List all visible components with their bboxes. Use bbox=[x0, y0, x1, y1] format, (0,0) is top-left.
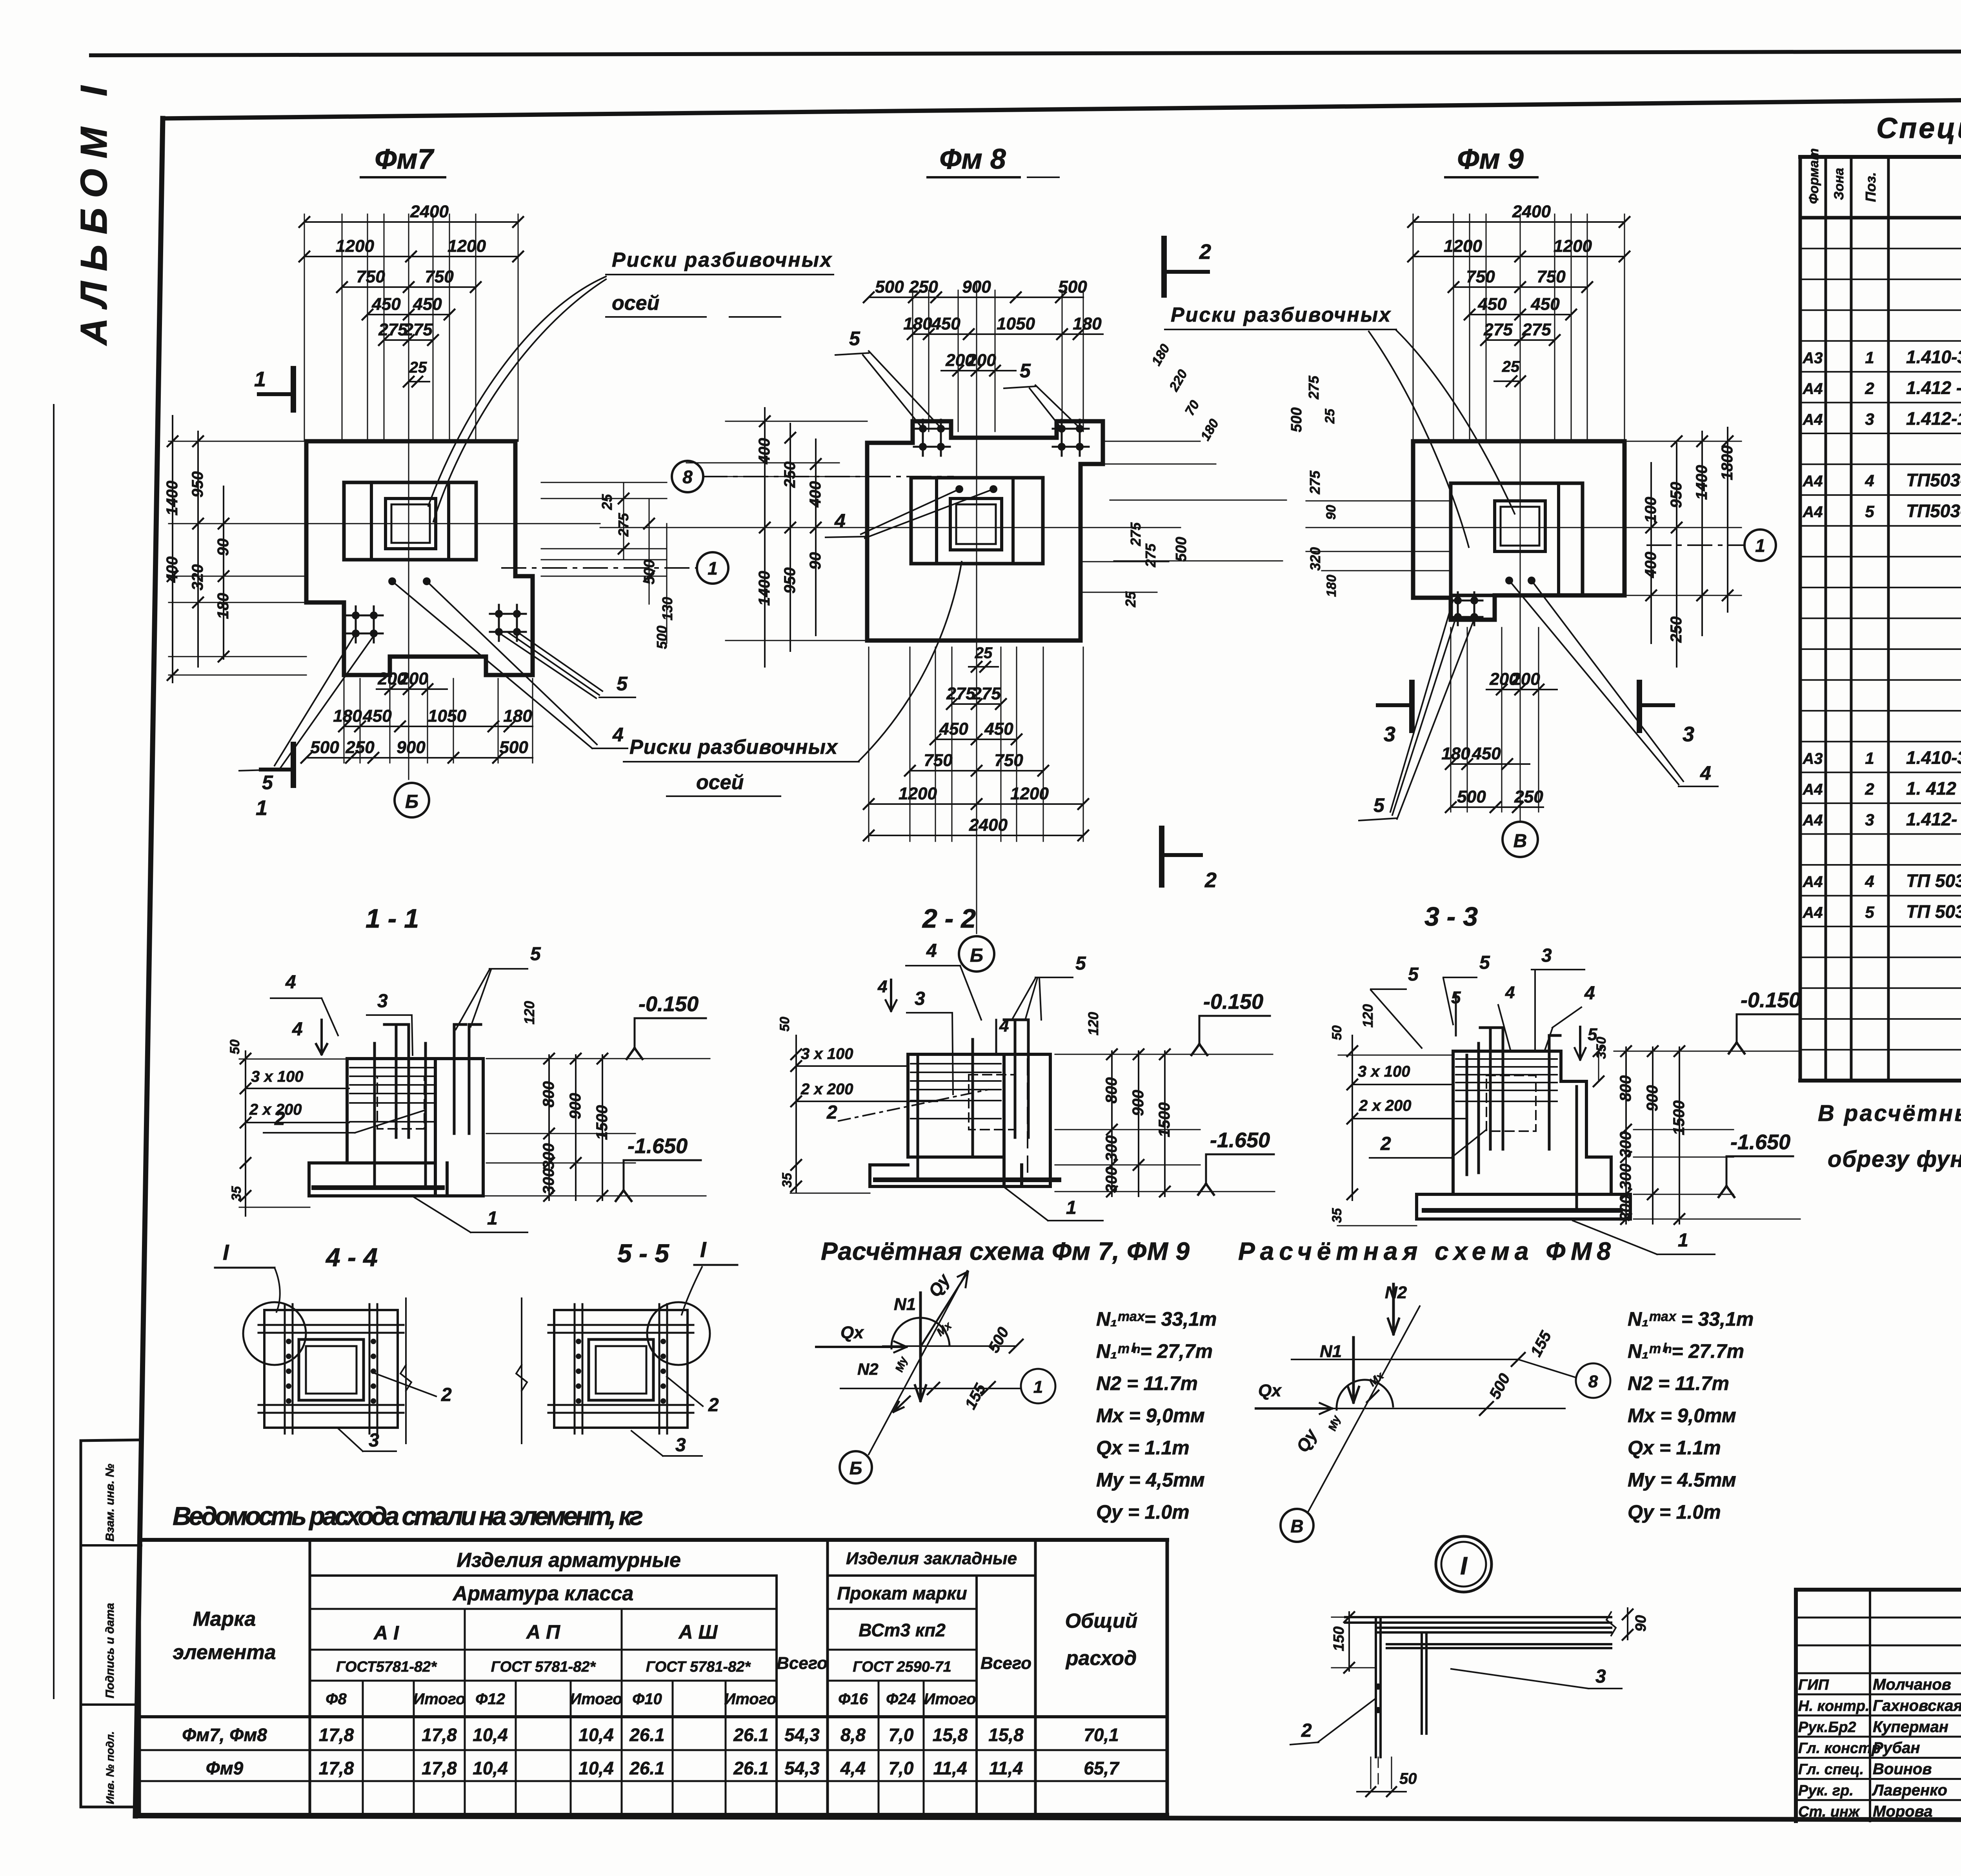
svg-text:2: 2 bbox=[1865, 780, 1874, 798]
steel table inner column splits for A classes bbox=[464, 1609, 466, 1681]
scheme 1 Qy arrow bbox=[920, 1273, 967, 1347]
svg-text:Итого: Итого bbox=[924, 1690, 976, 1708]
svg-text:450: 450 bbox=[1530, 295, 1560, 314]
detail 4-4 right break line bbox=[405, 1298, 407, 1443]
svg-text:I: I bbox=[223, 1240, 229, 1265]
svg-text:1500: 1500 bbox=[1156, 1103, 1173, 1137]
svg-text:250: 250 bbox=[781, 462, 799, 488]
svg-text:N2: N2 bbox=[1385, 1283, 1407, 1302]
svg-text:Mу: Mу bbox=[1326, 1414, 1343, 1432]
steel table horizontal lines bbox=[310, 1574, 777, 1577]
svg-text:1: 1 bbox=[1865, 348, 1874, 367]
svg-text:450: 450 bbox=[1472, 744, 1501, 763]
section 2-2 hooked dowels bbox=[1014, 1020, 1017, 1137]
svg-text:1: 1 bbox=[1678, 1230, 1688, 1251]
svg-text:4: 4 bbox=[1865, 471, 1874, 490]
svg-text:750: 750 bbox=[994, 751, 1023, 770]
plan FM9 leader to mark 5 bbox=[1392, 618, 1456, 815]
svg-text:275: 275 bbox=[1483, 320, 1513, 339]
svg-text:А Ш: А Ш bbox=[678, 1621, 718, 1643]
svg-text:А4: А4 bbox=[1802, 781, 1823, 798]
svg-text:осей: осей bbox=[696, 771, 744, 794]
plan FM7 left vertical dims bbox=[172, 416, 173, 682]
svg-text:N1: N1 bbox=[1320, 1342, 1342, 1361]
svg-text:500: 500 bbox=[499, 738, 528, 757]
svg-text:Фм7: Фм7 bbox=[375, 144, 434, 175]
svg-text:1400: 1400 bbox=[1693, 465, 1710, 500]
svg-text:2: 2 bbox=[1199, 240, 1211, 264]
svg-text:180: 180 bbox=[1073, 314, 1102, 333]
section 1-1 stem outline bbox=[347, 1059, 435, 1163]
svg-text:3 х 100: 3 х 100 bbox=[1358, 1063, 1410, 1080]
svg-text:Qх = 1.1т: Qх = 1.1т bbox=[1096, 1437, 1190, 1459]
svg-text:1: 1 bbox=[708, 558, 718, 579]
plan FM9 section mark 3 left bbox=[1378, 703, 1412, 707]
svg-text:17,8: 17,8 bbox=[319, 1725, 354, 1745]
section 2-2 mark 1 leader bbox=[1005, 1188, 1048, 1221]
plan FM9 section mark 3 right bbox=[1639, 703, 1673, 707]
detail 5-5 corner circle bbox=[647, 1302, 710, 1365]
svg-text:1: 1 bbox=[1865, 749, 1874, 767]
svg-text:3: 3 bbox=[1541, 945, 1552, 966]
scheme 2 N2 arrow bbox=[1392, 1284, 1395, 1334]
plan FM8 left tab bolt group bbox=[922, 420, 924, 456]
section 1-1 hooked dowels bbox=[395, 1024, 398, 1137]
svg-text:N₁ᵐᵃˣ= 33,1т: N₁ᵐᵃˣ= 33,1т bbox=[1096, 1308, 1217, 1330]
grid circle 8 left of FM8 bbox=[672, 461, 703, 492]
section 1-1 right dims bbox=[486, 1058, 635, 1059]
svg-text:2: 2 bbox=[441, 1385, 452, 1405]
inter-plan thin lines FM8-FM9 bbox=[1110, 500, 1286, 501]
plan FM9 vertical axis bbox=[1520, 220, 1521, 822]
plan FM8 right tab bolt group bbox=[1061, 420, 1063, 456]
svg-text:1200: 1200 bbox=[1444, 237, 1482, 256]
plan FM7 pocket inner walls bbox=[370, 482, 373, 560]
svg-text:5: 5 bbox=[1408, 964, 1419, 985]
svg-text:Ф24: Ф24 bbox=[886, 1690, 916, 1708]
svg-text:1: 1 bbox=[1066, 1197, 1077, 1218]
detail I anchor dots bbox=[1375, 1683, 1381, 1690]
svg-text:Mх = 9,0тм: Mх = 9,0тм bbox=[1096, 1405, 1205, 1427]
svg-text:-1.650: -1.650 bbox=[1210, 1128, 1270, 1152]
svg-text:8,8: 8,8 bbox=[840, 1725, 866, 1745]
svg-text:3: 3 bbox=[1384, 722, 1395, 746]
svg-text:N2 = 11.7т: N2 = 11.7т bbox=[1096, 1372, 1198, 1394]
svg-text:35: 35 bbox=[780, 1172, 795, 1188]
plan FM8 column section inner bbox=[956, 504, 996, 544]
svg-text:450: 450 bbox=[931, 314, 960, 333]
svg-text:3 - 3: 3 - 3 bbox=[1424, 902, 1478, 932]
plan FM7 section mark 1 top bbox=[259, 392, 293, 396]
svg-text:А П: А П bbox=[526, 1621, 560, 1643]
section 3-3 mark 1 leader bbox=[1573, 1221, 1657, 1254]
svg-text:Гл. констр: Гл. констр bbox=[1798, 1740, 1881, 1757]
svg-text:Изделия закладные: Изделия закладные bbox=[846, 1549, 1017, 1568]
svg-text:900: 900 bbox=[1130, 1090, 1147, 1116]
svg-text:26.1: 26.1 bbox=[629, 1758, 665, 1778]
svg-text:1200: 1200 bbox=[448, 237, 486, 256]
svg-text:Всего: Всего bbox=[777, 1654, 828, 1673]
plan FM7 column section inner bbox=[391, 504, 430, 543]
svg-text:Молчанов: Молчанов bbox=[1873, 1676, 1951, 1693]
svg-text:750: 750 bbox=[1466, 267, 1495, 286]
scheme 2 grid circle 8 bbox=[1576, 1363, 1610, 1398]
svg-text:65,7: 65,7 bbox=[1084, 1758, 1120, 1778]
svg-text:Воинов: Воинов bbox=[1873, 1761, 1932, 1778]
scheme 1 axis line lower bbox=[840, 1388, 1021, 1389]
svg-text:Риски разбивочных: Риски разбивочных bbox=[629, 736, 838, 759]
grid circle B below FM8 bbox=[959, 936, 994, 972]
svg-text:Подпись и дата: Подпись и дата bbox=[104, 1603, 116, 1698]
section 1-1 right block outline bbox=[435, 1059, 483, 1196]
svg-text:500: 500 bbox=[310, 738, 339, 757]
svg-text:Н. контр.: Н. контр. bbox=[1798, 1698, 1870, 1714]
svg-text:90: 90 bbox=[215, 539, 232, 556]
svg-text:1400: 1400 bbox=[756, 571, 773, 606]
svg-text:180: 180 bbox=[215, 593, 232, 619]
svg-text:180: 180 bbox=[503, 706, 532, 726]
svg-text:120: 120 bbox=[1085, 1012, 1101, 1035]
scheme 2 line to circle 8 bbox=[1518, 1359, 1576, 1377]
svg-text:750: 750 bbox=[1537, 267, 1566, 286]
plan FM7 bottom dims 200 200 bbox=[377, 688, 447, 690]
svg-text:1: 1 bbox=[1755, 535, 1765, 556]
scheme 2 axis line upper bbox=[1292, 1359, 1518, 1360]
svg-text:N1: N1 bbox=[894, 1295, 916, 1314]
svg-text:Гл. спец.: Гл. спец. bbox=[1798, 1761, 1864, 1778]
svg-text:1050: 1050 bbox=[997, 314, 1035, 333]
svg-text:ВСт3 кп2: ВСт3 кп2 bbox=[859, 1620, 946, 1640]
svg-text:1.410-3, Вып.1: 1.410-3, Вып.1 bbox=[1906, 347, 1961, 367]
svg-text:50: 50 bbox=[227, 1039, 242, 1054]
detail 4-4 mark 2 leader bbox=[373, 1373, 436, 1396]
frame bottom border bbox=[135, 1816, 1961, 1821]
detail I circle bbox=[1436, 1536, 1492, 1592]
svg-text:N₁ᵐᵃˣ = 33,1т: N₁ᵐᵃˣ = 33,1т bbox=[1628, 1308, 1754, 1330]
plan FM7 anchor dots near column bbox=[388, 577, 396, 585]
svg-text:Лавренко: Лавренко bbox=[1872, 1782, 1947, 1799]
svg-text:А4: А4 bbox=[1802, 380, 1823, 397]
scheme 1 grid circle 1 bbox=[1021, 1369, 1055, 1403]
steel table outer frame bbox=[139, 1538, 1167, 1542]
svg-text:Б: Б bbox=[850, 1458, 862, 1478]
section 1-1 vertical rebars bbox=[373, 1043, 376, 1185]
svg-text:Арматура класса: Арматура класса bbox=[452, 1582, 634, 1605]
plan FM7 pocket inner rectangle bbox=[344, 482, 476, 560]
svg-text:2: 2 bbox=[826, 1102, 837, 1123]
scheme 2 N1 arrow bbox=[1352, 1337, 1355, 1402]
svg-text:300: 300 bbox=[1617, 1195, 1634, 1221]
svg-text:Формат: Формат bbox=[1806, 148, 1821, 204]
svg-text:50: 50 bbox=[1399, 1770, 1417, 1787]
svg-text:Ф16: Ф16 bbox=[838, 1690, 868, 1708]
section 3-3 stem mesh lines bbox=[1456, 1058, 1557, 1060]
svg-text:Qx: Qx bbox=[1258, 1381, 1282, 1400]
svg-text:Гахновская: Гахновская bbox=[1873, 1697, 1961, 1714]
svg-text:5: 5 bbox=[530, 944, 541, 964]
specification table row lines bbox=[1800, 248, 1961, 249]
svg-text:3: 3 bbox=[1865, 410, 1874, 428]
svg-text:3 х 100: 3 х 100 bbox=[251, 1068, 303, 1085]
svg-text:5: 5 bbox=[1373, 794, 1385, 816]
plan FM8 section mark 2 top bbox=[1161, 238, 1167, 295]
svg-text:ГОСТ5781-82*: ГОСТ5781-82* bbox=[336, 1659, 437, 1675]
svg-text:-1.650: -1.650 bbox=[1730, 1130, 1790, 1154]
svg-text:1200: 1200 bbox=[899, 784, 937, 803]
section 2-2 footing bottom bar bbox=[875, 1177, 1059, 1182]
steel table verticals bbox=[309, 1540, 311, 1815]
svg-text:17,8: 17,8 bbox=[319, 1758, 354, 1778]
svg-text:2400: 2400 bbox=[969, 815, 1008, 835]
plan FM9 axis to grid circle 1 bbox=[1647, 544, 1745, 546]
svg-text:500: 500 bbox=[654, 626, 670, 649]
svg-text:8: 8 bbox=[1588, 1372, 1598, 1391]
svg-text:10,4: 10,4 bbox=[578, 1725, 614, 1745]
svg-text:120: 120 bbox=[1360, 1004, 1376, 1028]
svg-text:N₁ᵐⁱⁿ= 27.7т: N₁ᵐⁱⁿ= 27.7т bbox=[1628, 1340, 1744, 1362]
svg-text:Qх = 1.1т: Qх = 1.1т bbox=[1628, 1437, 1721, 1459]
specification table header row line bbox=[1800, 216, 1961, 220]
plan FM7 bottom dims 180 450 1050 180 bbox=[344, 726, 533, 727]
svg-text:7,0: 7,0 bbox=[889, 1725, 914, 1745]
plan FM8 anchor dots bbox=[955, 485, 963, 493]
svg-text:В: В bbox=[1290, 1516, 1303, 1536]
plan FM8 pocket inner rectangle bbox=[911, 478, 1043, 564]
svg-text:200: 200 bbox=[1511, 670, 1540, 689]
svg-text:4 - 4: 4 - 4 bbox=[325, 1243, 378, 1272]
svg-text:Изделия арматурные: Изделия арматурные bbox=[457, 1549, 681, 1572]
plan FM9 dimensions 275 275 bbox=[1486, 339, 1555, 341]
svg-text:10,4: 10,4 bbox=[578, 1758, 614, 1778]
plan FM9 bottom dims 180 450 bbox=[1451, 763, 1530, 765]
svg-text:275: 275 bbox=[1128, 522, 1144, 546]
svg-text:180: 180 bbox=[1324, 575, 1339, 597]
svg-text:Ф8: Ф8 bbox=[326, 1690, 347, 1708]
plan FM9 bottom dims 200 200 bbox=[1486, 689, 1557, 690]
plan FM8 bottom dims 275 275 bbox=[952, 703, 1001, 705]
svg-text:2 х 200: 2 х 200 bbox=[800, 1081, 853, 1098]
svg-text:500: 500 bbox=[1173, 537, 1190, 562]
plan FM7 leader to mark 4 bbox=[392, 581, 592, 748]
svg-text:5: 5 bbox=[1479, 952, 1490, 973]
plan FM9 column section inner bbox=[1501, 507, 1539, 546]
plan FM8 leader to mark 5 left bbox=[863, 355, 922, 428]
svg-text:120: 120 bbox=[521, 1001, 537, 1024]
plan FM8 leader to mark 5 right bbox=[1030, 388, 1061, 428]
svg-text:Марка: Марка bbox=[193, 1608, 256, 1630]
svg-text:Ф10: Ф10 bbox=[632, 1690, 662, 1708]
frame top border bbox=[163, 93, 1961, 118]
svg-text:400: 400 bbox=[1642, 552, 1659, 579]
detail 5-5 left break line bbox=[521, 1298, 522, 1443]
grid circle 1 right of FM9 bbox=[1745, 530, 1776, 561]
svg-text:950: 950 bbox=[189, 471, 206, 498]
svg-text:Рук. гр.: Рук. гр. bbox=[1798, 1783, 1854, 1799]
svg-text:2: 2 bbox=[274, 1108, 285, 1129]
svg-text:Mу: Mу bbox=[893, 1355, 910, 1374]
svg-text:ТП 503-3-20.87 альбом IV: ТП 503-3-20.87 альбом IV bbox=[1906, 871, 1961, 891]
svg-text:А4: А4 bbox=[1802, 411, 1823, 428]
plan FM9 outline bbox=[1413, 441, 1624, 620]
scheme 2 main diagonal bbox=[1308, 1306, 1420, 1512]
svg-text:2: 2 bbox=[1380, 1134, 1391, 1154]
svg-text:300: 300 bbox=[540, 1143, 557, 1170]
sheet top border line bbox=[91, 50, 1961, 55]
document side stamp boxes bbox=[80, 1441, 82, 1807]
scheme 2 Qx arrow bbox=[1256, 1407, 1332, 1410]
detail I dim 150 bbox=[1348, 1612, 1350, 1671]
svg-text:750: 750 bbox=[924, 751, 953, 770]
svg-text:Mх = 9,0тм: Mх = 9,0тм bbox=[1628, 1405, 1736, 1427]
svg-text:200: 200 bbox=[399, 669, 428, 688]
detail 5-5 view bbox=[554, 1310, 688, 1428]
plan FM9 dimensions 450 450 bbox=[1470, 314, 1571, 315]
plan FM9 horizontal axis bbox=[1314, 527, 1686, 528]
svg-text:-1.650: -1.650 bbox=[628, 1134, 688, 1158]
svg-text:1: 1 bbox=[256, 796, 267, 820]
svg-text:5: 5 bbox=[262, 772, 273, 793]
svg-text:4: 4 bbox=[292, 1019, 303, 1040]
svg-text:275: 275 bbox=[1306, 375, 1322, 400]
svg-text:1.412 -1/77, Вып.3: 1.412 -1/77, Вып.3 bbox=[1906, 377, 1961, 398]
svg-text:275: 275 bbox=[1142, 543, 1159, 568]
svg-text:ГОСТ 5781-82*: ГОСТ 5781-82* bbox=[646, 1659, 751, 1675]
section 1-1 footing outline bbox=[309, 1163, 447, 1196]
plan FM7 dimensions 275 275 bbox=[384, 339, 433, 341]
svg-text:4,4: 4,4 bbox=[840, 1758, 866, 1778]
svg-text:А4: А4 bbox=[1802, 904, 1823, 921]
svg-text:4: 4 bbox=[1865, 872, 1874, 891]
plan FM9 leader to mark 4 bbox=[1509, 580, 1679, 784]
plan FM7 bottom dims 500 250 900 500 bbox=[306, 757, 533, 759]
svg-text:220: 220 bbox=[1166, 367, 1191, 394]
detail I mark 2 leader bbox=[1318, 1698, 1376, 1742]
svg-text:Риски разбивочных: Риски разбивочных bbox=[1171, 304, 1391, 326]
svg-text:А I: А I bbox=[373, 1622, 399, 1644]
plan FM7 extension lines above bbox=[304, 214, 305, 441]
svg-text:Риски разбивочных: Риски разбивочных bbox=[612, 249, 832, 271]
svg-text:расход: расход bbox=[1065, 1647, 1137, 1670]
svg-text:17,8: 17,8 bbox=[422, 1758, 457, 1778]
section 2-2 stem mesh lines bbox=[911, 1063, 1001, 1064]
svg-text:950: 950 bbox=[781, 568, 799, 594]
svg-text:50: 50 bbox=[1330, 1025, 1344, 1040]
svg-text:I: I bbox=[700, 1237, 707, 1262]
svg-text:450: 450 bbox=[413, 295, 442, 314]
svg-text:Спецификация ФМ 7 ÷ ФМ9: Спецификация ФМ 7 ÷ ФМ9 bbox=[1876, 112, 1961, 144]
svg-text:500: 500 bbox=[985, 1325, 1012, 1356]
svg-text:500: 500 bbox=[1486, 1371, 1513, 1402]
svg-text:450: 450 bbox=[984, 719, 1013, 739]
grid circle V below FM9 bbox=[1503, 822, 1538, 857]
plan FM7 bottom extension lines bbox=[344, 679, 345, 763]
svg-text:500: 500 bbox=[875, 277, 904, 297]
plan FM7 left extension lines bbox=[169, 441, 306, 442]
svg-text:200: 200 bbox=[967, 351, 996, 370]
svg-text:3: 3 bbox=[1683, 722, 1694, 746]
plan FM7 leader to mark 5 left bbox=[275, 635, 355, 766]
plan FM8 outline bbox=[867, 421, 1103, 640]
plan FM8 column section outer bbox=[950, 499, 1002, 550]
svg-text:Зона: Зона bbox=[1832, 168, 1846, 200]
plan FM9 pocket inner rectangle bbox=[1451, 483, 1583, 595]
svg-text:Рук.Бр2: Рук.Бр2 bbox=[1798, 1719, 1856, 1736]
svg-text:4: 4 bbox=[285, 972, 296, 993]
svg-text:8: 8 bbox=[682, 467, 693, 487]
svg-text:250: 250 bbox=[1668, 617, 1685, 643]
plan FM9 bottom extension lines bbox=[1450, 628, 1452, 812]
svg-text:275: 275 bbox=[971, 684, 1001, 703]
svg-text:2 - 2: 2 - 2 bbox=[922, 904, 976, 933]
plan FM7 right tab bolt group bbox=[498, 605, 500, 641]
svg-text:750: 750 bbox=[356, 267, 385, 286]
svg-text:900: 900 bbox=[1644, 1085, 1661, 1112]
plan FM8 pocket inner walls bbox=[935, 478, 938, 564]
plan FM9 right vertical dims bbox=[1624, 441, 1741, 442]
svg-text:450: 450 bbox=[939, 719, 968, 739]
svg-text:800: 800 bbox=[1617, 1075, 1634, 1102]
section 2-2 footing outline bbox=[870, 1165, 1022, 1186]
svg-text:180: 180 bbox=[1149, 342, 1173, 368]
scheme 2 grid circle V bbox=[1281, 1509, 1313, 1542]
detail I vertical bars bbox=[1375, 1617, 1377, 1757]
svg-text:26.1: 26.1 bbox=[629, 1725, 665, 1745]
svg-text:Итого: Итого bbox=[570, 1690, 622, 1708]
svg-text:I: I bbox=[1460, 1552, 1468, 1580]
svg-text:А4: А4 bbox=[1802, 473, 1823, 490]
svg-text:180: 180 bbox=[1198, 417, 1222, 443]
svg-text:300: 300 bbox=[1617, 1132, 1634, 1158]
svg-text:В: В bbox=[1513, 831, 1527, 852]
svg-text:ТП503-3-20.87 альбом IV: ТП503-3-20.87 альбом IV bbox=[1906, 470, 1961, 490]
svg-text:Общий: Общий bbox=[1065, 1610, 1138, 1632]
svg-text:В расчётных схемах даны но: В расчётных схемах даны нормативные нагр… bbox=[1818, 1101, 1961, 1126]
svg-text:-0.150: -0.150 bbox=[1203, 990, 1263, 1014]
svg-text:1.412-1/77, Вып.3: 1.412-1/77, Вып.3 bbox=[1906, 408, 1961, 429]
grid circle 1 right of FM7 bbox=[697, 552, 728, 584]
svg-text:2 х 200: 2 х 200 bbox=[1359, 1097, 1411, 1114]
plan FM7 dimensions 750 750 bbox=[342, 286, 476, 288]
svg-text:Рубан: Рубан bbox=[1873, 1740, 1920, 1757]
svg-text:1500: 1500 bbox=[1670, 1101, 1688, 1135]
svg-text:4: 4 bbox=[877, 977, 887, 996]
svg-text:11,4: 11,4 bbox=[933, 1758, 967, 1778]
svg-text:275: 275 bbox=[378, 320, 407, 339]
svg-text:3: 3 bbox=[675, 1435, 686, 1456]
plan FM9 bottom dims 500 250 bbox=[1451, 806, 1543, 808]
plan FM7 dimensions 450 450 bbox=[367, 314, 449, 315]
section 2-2 right block outline bbox=[1004, 1054, 1050, 1186]
svg-text:Mу = 4,5тм: Mу = 4,5тм bbox=[1096, 1469, 1205, 1491]
plan FM7 dimensions 1200 1200 bbox=[304, 256, 518, 257]
svg-text:800: 800 bbox=[540, 1081, 557, 1108]
svg-text:5: 5 bbox=[849, 328, 860, 349]
title block signatures columns bbox=[1869, 1590, 1871, 1821]
svg-text:3: 3 bbox=[915, 988, 925, 1009]
svg-text:90: 90 bbox=[807, 552, 824, 570]
svg-text:1500: 1500 bbox=[593, 1105, 611, 1140]
section 3-3 stepped outline bbox=[1417, 1051, 1630, 1219]
svg-text:155: 155 bbox=[962, 1381, 990, 1412]
svg-text:25: 25 bbox=[975, 644, 993, 662]
plan FM8 bottom dim 2400 bbox=[869, 835, 1083, 836]
svg-text:Фм7, Фм8: Фм7, Фм8 bbox=[182, 1725, 267, 1745]
svg-text:180: 180 bbox=[333, 706, 362, 726]
svg-text:ТП503-3-20.87 альбом IV: ТП503-3-20.87 альбом IV bbox=[1906, 501, 1961, 521]
svg-text:Итого: Итого bbox=[724, 1690, 776, 1708]
svg-text:А4: А4 bbox=[1802, 873, 1823, 891]
plan FM8 bottom dims 450 450 bbox=[935, 739, 1017, 740]
